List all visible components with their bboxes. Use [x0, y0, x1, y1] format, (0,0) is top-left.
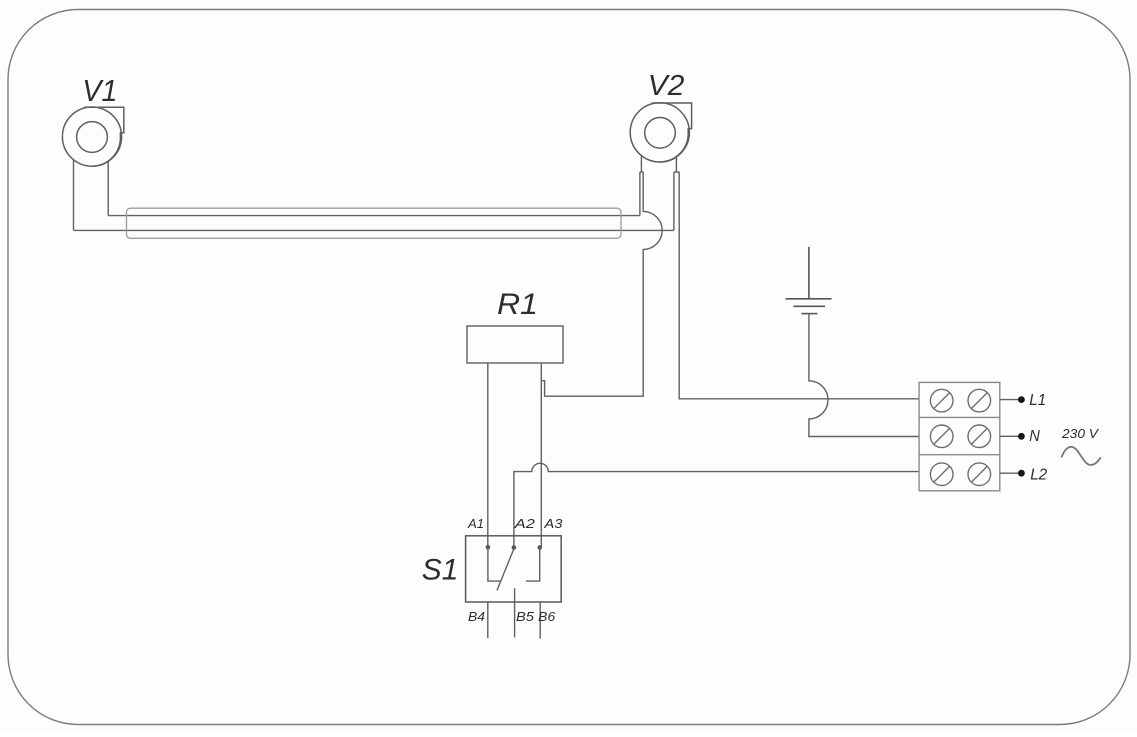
svg-text:V1: V1 [82, 74, 117, 108]
svg-text:B6: B6 [538, 609, 556, 624]
wire R1 left pin down to A1 [487, 363, 489, 547]
wire V1 right lead [107, 162, 109, 216]
screw terminals [930, 389, 990, 485]
node N dot [1018, 433, 1025, 440]
wire A3 contact L [526, 548, 540, 582]
wire ground down with hop over L1 row, to N row [809, 314, 919, 437]
switch lever [497, 550, 514, 591]
svg-text:V2: V2 [648, 70, 685, 102]
wire V2 left pair outer [639, 172, 641, 216]
wire B6 [539, 602, 541, 639]
wire V2 left lead stub [640, 156, 642, 172]
svg-text:L1: L1 [1029, 392, 1046, 409]
node A3 dot [537, 545, 542, 550]
cable duct [127, 208, 622, 238]
wire upper horizontal (V1 right to V2 left) [108, 215, 640, 217]
wire A1 contact L [488, 547, 500, 581]
switch S1 box [466, 536, 562, 602]
node L1 dot [1018, 396, 1025, 403]
node A2 dot [512, 545, 517, 550]
svg-text:A2: A2 [514, 516, 536, 531]
svg-text:A3: A3 [543, 516, 563, 531]
svg-text:R1: R1 [497, 288, 538, 321]
resistor R1 [467, 326, 563, 363]
AC sine symbol [1062, 447, 1101, 465]
wire B4 [487, 602, 489, 638]
wire V2 right pair tick [674, 171, 679, 173]
fan V1 [62, 107, 123, 166]
svg-text:230 V: 230 V [1061, 426, 1100, 441]
wire V2 right lead stub [675, 157, 677, 172]
terminal block X1 [919, 382, 1000, 490]
svg-text:L2: L2 [1030, 467, 1047, 484]
ground symbol [786, 247, 832, 314]
wire lower horizontal (V1 left to V2 right) [74, 229, 674, 231]
node L2 dot [1018, 470, 1025, 477]
node A1 dot [486, 545, 491, 550]
svg-text:A1: A1 [467, 516, 484, 531]
svg-text:B4: B4 [468, 609, 485, 624]
wire R1 right pin down to A3 [540, 363, 542, 548]
svg-text:S1: S1 [422, 553, 459, 586]
wire stub N [1000, 435, 1022, 437]
wire V1 left lead [73, 160, 75, 231]
fan V2 [630, 103, 691, 162]
wire V2 right pair outer down to L1 row [679, 172, 919, 399]
wire L2 row horizontal with hop over A3 wire [514, 463, 919, 547]
wire V2 left pair tick [640, 171, 643, 173]
svg-text:B5: B5 [516, 609, 535, 624]
wire V2 left pair inner with hop over lower horizontal [541, 172, 662, 396]
wire stub L2 [1000, 472, 1022, 474]
svg-text:N: N [1029, 428, 1040, 445]
wire B5 [514, 588, 516, 637]
wire stub L1 [1000, 399, 1022, 401]
wire V2 right pair inner [673, 172, 675, 230]
